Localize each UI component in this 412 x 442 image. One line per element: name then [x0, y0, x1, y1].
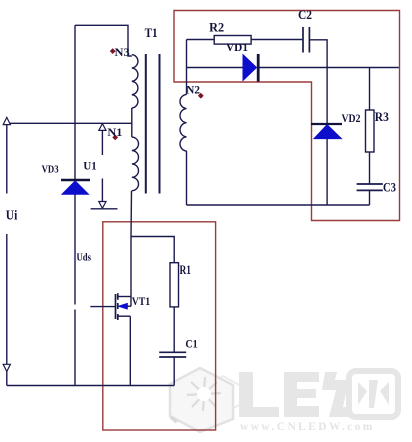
wire N2 bottom vertical [186, 151, 188, 205]
mosfet VT1 source stub [118, 315, 131, 317]
red frame top (snubber+rectifier region, L-shaped) [174, 11, 400, 221]
svg-text:Ui: Ui [6, 207, 18, 222]
arrow Ui down [3, 364, 10, 371]
svg-text:VT1: VT1 [132, 296, 151, 308]
diode VD3 [61, 180, 90, 194]
svg-text:VD1: VD1 [226, 42, 248, 54]
mosfet VT1 body stub [127, 305, 131, 307]
transformer N2 winding [180, 94, 187, 151]
watermark LED text [239, 371, 398, 417]
wire VD2 vertical lower [326, 139, 328, 206]
svg-text:N2: N2 [186, 85, 200, 97]
wire left vertical upper (Ui/VD3 branch) [74, 25, 76, 180]
wire Ui left vertical [6, 123, 8, 385]
wire bottom rail [7, 385, 174, 387]
wire C3 to bottom rail [369, 190, 371, 205]
capacitor C1 [159, 352, 186, 357]
wire R3 to C3 [369, 152, 371, 184]
transformer N1 winding [132, 137, 139, 191]
mosfet VT1 channel ticks [117, 293, 119, 320]
wire U1 arrow shaft [101, 130, 103, 201]
wire C2 to VD2 node [310, 40, 327, 68]
wire R2 to C2 [251, 39, 302, 41]
wire snubber top [187, 39, 215, 41]
svg-text:C1: C1 [185, 336, 197, 350]
capacitor C2 [303, 27, 309, 53]
wire drain node to R1 [131, 237, 174, 263]
svg-text:VD2: VD2 [342, 113, 361, 125]
svg-text:U1: U1 [83, 158, 96, 172]
wire primary top loop [75, 25, 132, 56]
wire main horizontal (input top rail) [7, 122, 132, 124]
resistor R3 [366, 110, 375, 152]
transformer N3 winding [132, 55, 138, 108]
arrow U1 up [99, 124, 106, 131]
wire left vertical lower (VD3 to bottom) [74, 194, 76, 386]
resistor R2 [214, 36, 251, 45]
svg-text:Uds: Uds [77, 253, 92, 264]
mosfet VT1 gate wire [90, 306, 115, 308]
wire R1 to C1 [173, 307, 175, 352]
svg-text:C3: C3 [383, 181, 396, 195]
node N3 dot [110, 48, 116, 54]
diode VD2 [311, 124, 342, 139]
wire U1 reference tick [91, 208, 118, 210]
svg-text:N3: N3 [115, 45, 130, 59]
arrow Ui up [3, 117, 10, 124]
svg-text:R3: R3 [375, 110, 389, 124]
wire source to bottom rail [129, 316, 131, 385]
watermark logo hexagon [170, 368, 241, 432]
resistor R1 [170, 263, 179, 307]
svg-text:R2: R2 [209, 21, 224, 35]
wire between windings [131, 108, 133, 137]
wire R3 branch upper [369, 68, 371, 111]
svg-text:VD3: VD3 [42, 163, 59, 175]
wire C1 to bottom rail [173, 357, 175, 386]
svg-text:C2: C2 [298, 8, 312, 22]
transformer core [146, 54, 160, 194]
wire VD1 cathode to right [260, 67, 399, 69]
svg-text:R1: R1 [180, 263, 192, 277]
diode VD1 [243, 54, 258, 82]
node N2 dot [198, 93, 204, 99]
wire secondary bottom rail [187, 204, 370, 206]
mosfet VT1 body arrow [119, 303, 128, 309]
mosfet VT1 drain stub [118, 296, 131, 298]
wire VD1 anode [187, 67, 244, 69]
svg-text:T1: T1 [145, 26, 158, 40]
red frame bottom (switch region) [103, 222, 216, 430]
capacitor C3 [357, 184, 383, 190]
wire N1 bottom to drain [130, 191, 133, 306]
mosfet VT1 gate bar [115, 294, 117, 319]
wire N2 top vertical [186, 40, 188, 95]
wire VD2 vertical upper [326, 68, 328, 125]
svg-text:www.CNLEDW.com: www.CNLEDW.com [240, 421, 375, 433]
svg-text:N1: N1 [107, 125, 122, 139]
node N1 dot [112, 135, 118, 141]
arrow U1 down [99, 202, 106, 209]
